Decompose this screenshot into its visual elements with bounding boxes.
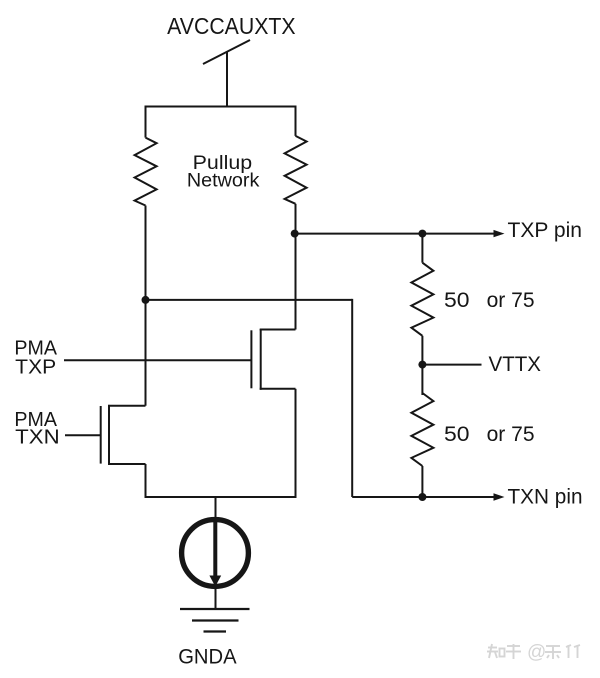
svg-text:TXN pin: TXN pin [508, 485, 583, 509]
svg-text:GNDA: GNDA [178, 644, 237, 668]
svg-text:VTTX: VTTX [489, 353, 542, 376]
svg-text:or 75: or 75 [487, 288, 535, 312]
svg-text:50: 50 [444, 288, 470, 312]
svg-text:or 75: or 75 [487, 422, 535, 446]
svg-text:50: 50 [444, 422, 470, 446]
svg-text:TXP: TXP [15, 356, 56, 379]
svg-text:TXP pin: TXP pin [508, 218, 583, 242]
svg-text:TXN: TXN [15, 426, 60, 449]
svg-text:Network: Network [187, 170, 260, 191]
svg-text:@: @ [527, 642, 546, 663]
svg-text:AVCCAUXTX: AVCCAUXTX [167, 13, 296, 39]
